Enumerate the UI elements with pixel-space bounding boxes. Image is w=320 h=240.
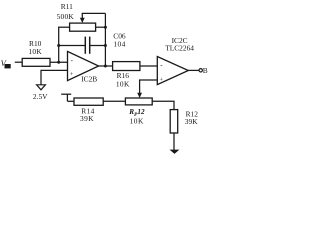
resistor R10 (22, 58, 50, 66)
wire capacitor left lead (59, 45, 86, 47)
power symbol 2.5V (37, 85, 46, 90)
resistor R12 (170, 110, 178, 133)
wire capacitor right lead (90, 45, 106, 47)
svg-text:10K: 10K (130, 117, 144, 126)
wire feedback left vertical (58, 27, 60, 62)
resistor R14 (74, 98, 103, 105)
svg-text:B: B (203, 66, 208, 75)
op-amp U2 IC2C (157, 57, 188, 85)
svg-text:+: + (70, 71, 74, 78)
svg-text:2.5V: 2.5V (33, 92, 48, 101)
wire feedback right vertical to output (104, 27, 106, 66)
rail tap symbol left of R14 (61, 94, 71, 101)
svg-text:10K: 10K (116, 79, 130, 88)
svg-text:+: + (160, 76, 164, 83)
junction node at op-amp output (104, 65, 107, 68)
wire R16 to op-amp2 inverting input (140, 65, 157, 67)
wire R12 to ground (173, 133, 175, 150)
wire to R11 left (58, 26, 70, 28)
wiper arrow into RP12 (137, 93, 142, 98)
wire tap to R14 (67, 100, 74, 102)
wire RP12 to R12 (152, 101, 174, 109)
terminal node B (199, 69, 202, 72)
op-amp U1 IC2B (68, 51, 99, 80)
wire R14 to RP12 (103, 100, 125, 102)
R11 wiper arrow (80, 13, 85, 23)
svg-text:104: 104 (113, 40, 125, 49)
svg-text:IC2B: IC2B (81, 75, 97, 84)
wire R11 right lead (96, 26, 106, 28)
capacitor C06 (85, 37, 89, 54)
junction node R11 right (104, 26, 107, 29)
svg-text:39K: 39K (185, 117, 198, 126)
svg-text:R11: R11 (61, 2, 73, 11)
wire op-amp2 non-inverting input (140, 80, 158, 94)
node V input label (1, 59, 11, 69)
resistor R16 (113, 62, 140, 71)
svg-text:TLC2264: TLC2264 (165, 43, 194, 52)
wire wiper right vertical (104, 13, 106, 27)
wire op-amp2 output (188, 69, 199, 71)
junction node capacitor right (104, 44, 107, 47)
junction node capacitor left (57, 44, 60, 47)
wire wiper top horizontal (82, 12, 106, 14)
wire input to R10 (15, 61, 22, 63)
svg-text:500K: 500K (57, 12, 75, 21)
ground (170, 150, 180, 154)
wire op-amp non-inverting input (41, 70, 68, 84)
potentiometer RP12 body (125, 98, 152, 105)
potentiometer R11 body (70, 23, 96, 31)
wire R10 to op-amp inverting input (50, 61, 68, 63)
wire op-amp1 output to R16 (99, 65, 113, 67)
svg-text:10K: 10K (28, 47, 42, 56)
svg-text:39K: 39K (80, 114, 94, 123)
junction node at inverting input (57, 61, 60, 64)
